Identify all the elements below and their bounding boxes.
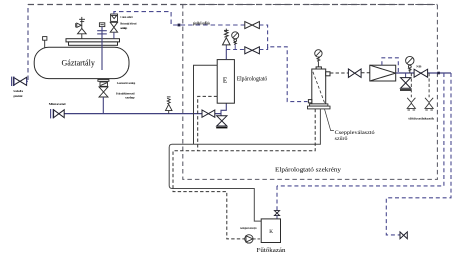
wire dashed to separator feed	[259, 47, 307, 102]
coupling 2	[425, 98, 433, 110]
wire evaporator drain elbow	[221, 103, 226, 116]
svg-text:Gáztartály: Gáztartály	[62, 59, 95, 68]
air filter funnel on tank	[111, 14, 118, 21]
wire dashed evap to valve	[226, 49, 244, 51]
wire compressor bypass dashed	[382, 58, 398, 73]
valve V12	[348, 69, 361, 78]
tank Gaztartaly	[34, 47, 129, 78]
wire heating solid pipe	[169, 109, 320, 221]
wire boiler stem	[276, 216, 278, 219]
left vent valve V5	[12, 77, 28, 86]
tank top flange plate	[66, 39, 120, 46]
wire pump to boiler dashed	[253, 238, 261, 240]
node junction dot at (179,25)	[178, 24, 181, 27]
valve V16 boiler	[274, 211, 279, 216]
wire drain stem	[102, 97, 104, 114]
wire blue dashed return 2	[386, 73, 451, 235]
gauge PI1 evaporator	[232, 32, 239, 50]
svg-text:K: K	[269, 229, 273, 235]
wire evaporator heating dashed	[198, 96, 218, 150]
tank bottom drain assembly	[98, 80, 109, 87]
svg-text:Leeresztő szelep: Leeresztő szelep	[117, 81, 135, 85]
wire dashed to corner	[259, 25, 267, 50]
svg-text:Elpárologtató: Elpárologtató	[237, 76, 268, 83]
gauge PI2 separator	[315, 50, 322, 67]
tank left nozzle	[43, 37, 47, 48]
wire evaporator heating loop solid	[194, 65, 218, 144]
pump	[245, 235, 253, 243]
svg-text:töltőcsatlakozók: töltőcsatlakozók	[408, 117, 434, 121]
wire level gauge tube	[97, 27, 107, 70]
wire compressor outlet pipe	[396, 72, 451, 74]
svg-text:E: E	[223, 76, 228, 85]
valve V6 mintavetel	[51, 109, 65, 118]
wire heating dashed pipe	[173, 109, 315, 239]
node junction dot outlet	[437, 72, 440, 75]
wire dashed drop to coupling 2	[428, 73, 430, 97]
svg-text:gázoldal: gázoldal	[13, 94, 22, 98]
svg-text:szelep: szelep	[125, 95, 135, 99]
svg-text:Cseppleválasztó: Cseppleválasztó	[335, 131, 376, 136]
wire main pipe	[54, 113, 221, 115]
svg-text:szűrő: szűrő	[335, 137, 348, 142]
wire blue dashed vent from funnel	[114, 12, 245, 25]
valve V14	[414, 69, 428, 77]
svg-text:Elpárologtató szekrény: Elpárologtató szekrény	[275, 166, 342, 173]
svg-text:1 mm szűrő: 1 mm szűrő	[120, 15, 133, 19]
valve V2 below funnel	[110, 22, 117, 32]
wire separator internal diagonal	[313, 72, 325, 103]
level gauge instrument on tank	[99, 23, 104, 27]
valve V3 gazoldali szellozes	[245, 22, 260, 29]
svg-text:keringtető szivattyú: keringtető szivattyú	[240, 226, 256, 230]
label cseppelevalaszto leader	[325, 109, 334, 131]
valve V4 tank drain	[99, 87, 108, 97]
wire dashed to compressor	[361, 72, 370, 74]
coupling 1	[407, 98, 415, 110]
safety valve V1 on tank	[76, 17, 87, 39]
safety valve V7 on main pipe	[166, 97, 173, 114]
svg-text:gázoldali szellőzés: gázoldali szellőzés	[193, 21, 210, 25]
separator column	[308, 67, 330, 104]
svg-text:NB: NB	[416, 64, 422, 68]
valve V8 before evaporator	[202, 110, 215, 117]
wire vent dashed top border	[27, 5, 29, 81]
svg-text:szelep: szelep	[120, 26, 127, 30]
compressor	[370, 65, 396, 81]
wire funnel stem	[113, 32, 115, 39]
valve V15 end vent	[400, 232, 407, 239]
wire blue dashed return 1	[277, 73, 444, 186]
gauge PI3 outlet	[406, 56, 414, 73]
separator base flanges	[308, 104, 331, 109]
svg-text:Fűtőkazán: Fűtőkazán	[257, 247, 287, 254]
valve V11	[245, 47, 260, 54]
valve V13 drain with cap	[400, 73, 411, 90]
wire evaporator top stem	[225, 50, 227, 60]
safety valve V10 evaporator	[223, 29, 231, 50]
valve V9 drain with cap	[216, 116, 227, 128]
wire boiler feed dashed	[276, 186, 278, 211]
boiler K box	[261, 219, 280, 243]
cabinet enclosure box (Elparologtato szekreny)	[183, 5, 438, 180]
svg-text:Mintavétel: Mintavétel	[49, 102, 66, 106]
evaporator E box	[217, 60, 234, 104]
svg-text:Szabadba: Szabadba	[13, 89, 23, 93]
wire dashed drop to coupling 1	[410, 73, 412, 97]
wire separator outlet dashed	[330, 72, 348, 74]
